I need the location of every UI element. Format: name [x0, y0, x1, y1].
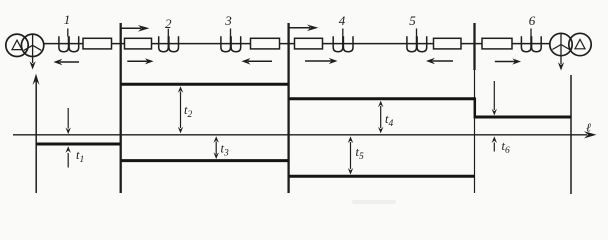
t6 dimension upper arrow	[493, 81, 495, 110]
bus 1 vertical	[120, 23, 122, 193]
right boundary vertical under G2	[570, 75, 572, 194]
relay box P4	[295, 38, 323, 49]
main line (bus-to-bus transmission line)	[43, 43, 550, 45]
step drop t4 to t6 at bus 3	[474, 97, 477, 118]
relay box P5	[434, 38, 462, 49]
bus 2 vertical	[287, 23, 289, 193]
G1 delta symbol	[12, 40, 22, 49]
t6 dimension lower arrow	[493, 143, 495, 152]
step t1 level	[36, 143, 120, 146]
svg-text:6: 6	[529, 13, 536, 28]
svg-text:5: 5	[409, 13, 416, 28]
CT1 tick	[67, 29, 69, 37]
current transformer CT3	[221, 36, 241, 52]
step t6 level	[475, 116, 571, 119]
arrow of protection 4 (points right)	[305, 60, 332, 62]
time axis (vertical, t)	[35, 80, 37, 193]
faint scan smudge	[352, 200, 396, 204]
arrow at bus 1 (points right)	[122, 27, 142, 29]
step t3 level	[121, 159, 289, 162]
G2 star (wye) symbol	[552, 34, 569, 50]
t3 dimension double arrow	[215, 142, 217, 155]
t5 dimension double arrow	[350, 142, 352, 169]
G2 delta winding circle	[569, 33, 591, 55]
svg-text:4: 4	[339, 13, 346, 28]
G1 load arrow (down)	[32, 45, 34, 63]
current transformer CT5	[407, 36, 427, 52]
svg-text:1: 1	[64, 12, 71, 27]
relay box P6	[482, 38, 512, 49]
current transformer CT2	[159, 36, 179, 52]
arrow at bus 2 (points right)	[290, 27, 311, 29]
current transformer CT4	[333, 36, 353, 52]
arrow of protection 2 (points right)	[127, 60, 147, 62]
current transformer CT6	[521, 36, 541, 52]
G1 star winding circle	[21, 34, 43, 56]
arrow of protection 6 (points right)	[495, 61, 515, 63]
step t4 level	[289, 97, 475, 100]
CT4 tick	[342, 29, 344, 37]
step t2 level	[121, 83, 289, 86]
arrow of protection 1 (points left)	[60, 61, 79, 63]
t4 dimension double arrow	[380, 106, 382, 128]
relay box P1	[83, 38, 112, 49]
G2 delta symbol	[575, 39, 585, 48]
generator-transformer unit G1 (left): delta winding circle	[6, 34, 28, 56]
current transformer CT1	[59, 36, 79, 52]
t1 dimension upper arrow	[67, 108, 69, 129]
bus 3 vertical (chart part, thin)	[474, 70, 476, 193]
arrow of protection 3 (points left)	[248, 60, 272, 62]
generator-transformer unit G2 (right): star winding circle	[550, 33, 572, 55]
svg-text:2: 2	[165, 16, 172, 31]
CT2 tick	[167, 29, 169, 37]
t2 dimension double arrow	[180, 92, 182, 129]
t1 dimension lower arrow	[67, 153, 69, 168]
G2 load arrow (down)	[560, 45, 562, 65]
bus 3 vertical (schematic part)	[473, 23, 475, 70]
length axis (horizontal, l)	[13, 134, 587, 136]
CT5 tick	[416, 29, 418, 37]
svg-text:3: 3	[224, 13, 232, 28]
G1 star (wye) symbol	[24, 35, 41, 51]
arrow of protection 5 (points left)	[433, 60, 454, 62]
relay box P2	[125, 38, 152, 49]
CT6 tick	[530, 29, 532, 37]
step t5 level	[289, 175, 475, 178]
svg-text:ℓ: ℓ	[586, 121, 591, 135]
relay box P3	[251, 38, 280, 49]
CT3 tick	[230, 29, 232, 37]
